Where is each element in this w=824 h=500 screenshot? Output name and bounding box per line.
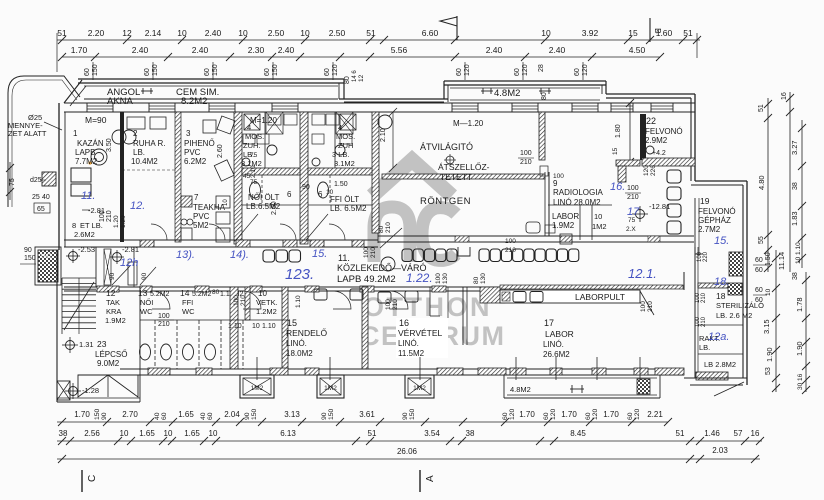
svg-text:6.13: 6.13 [280, 429, 296, 438]
svg-text:80: 80 [473, 276, 480, 284]
svg-text:60: 60 [755, 267, 763, 274]
svg-text:12: 12 [358, 74, 365, 82]
svg-text:3.61: 3.61 [359, 410, 375, 419]
svg-text:2.40: 2.40 [205, 28, 222, 38]
svg-text:6.60: 6.60 [422, 28, 439, 38]
svg-text:2.40: 2.40 [132, 45, 149, 55]
svg-text:210: 210 [158, 321, 170, 328]
svg-text:1.20: 1.20 [113, 215, 120, 228]
svg-text:220: 220 [703, 251, 709, 262]
svg-text:4.8M2: 4.8M2 [510, 385, 531, 394]
svg-text:1M2: 1M2 [40, 254, 52, 260]
svg-text:1: 1 [73, 129, 78, 138]
svg-text:40: 40 [200, 412, 207, 420]
svg-text:19: 19 [700, 196, 710, 206]
svg-text:2.6M2: 2.6M2 [74, 230, 95, 239]
svg-text:3.13: 3.13 [284, 410, 300, 419]
svg-text:1.78: 1.78 [795, 297, 804, 312]
svg-text:TETETT: TETETT [440, 172, 472, 182]
svg-text:3.15: 3.15 [762, 319, 771, 334]
svg-text:-2.53: -2.53 [78, 245, 95, 254]
svg-text:1.31: 1.31 [79, 340, 94, 349]
svg-text:60: 60 [755, 257, 763, 264]
svg-text:12h: 12h [120, 257, 138, 269]
svg-text:60: 60 [627, 412, 634, 420]
svg-text:1.70: 1.70 [603, 410, 619, 419]
svg-text:55: 55 [758, 236, 765, 244]
svg-text:40: 40 [154, 412, 161, 420]
svg-text:60: 60 [755, 287, 763, 294]
svg-text:15.: 15. [312, 248, 327, 260]
svg-text:WC: WC [182, 307, 195, 316]
svg-text:10: 10 [209, 429, 218, 438]
svg-text:123.: 123. [285, 266, 314, 283]
svg-text:2.50: 2.50 [268, 28, 285, 38]
svg-text:1M2: 1M2 [413, 385, 426, 392]
svg-text:2.60: 2.60 [217, 144, 224, 158]
svg-text:11.: 11. [338, 253, 350, 263]
svg-text:2.10: 2.10 [250, 165, 257, 178]
svg-text:LÉPCSŐ: LÉPCSŐ [95, 350, 127, 359]
svg-text:5.2M2: 5.2M2 [192, 291, 212, 298]
svg-text:13).: 13). [176, 249, 195, 261]
svg-text:MOS.: MOS. [245, 132, 264, 141]
svg-text:16: 16 [751, 429, 760, 438]
svg-text:80: 80 [344, 76, 351, 84]
svg-text:100: 100 [158, 313, 170, 320]
svg-text:12a.: 12a. [708, 331, 729, 343]
svg-text:51: 51 [366, 28, 376, 38]
svg-text:1.90: 1.90 [765, 347, 774, 362]
svg-text:LABOR: LABOR [552, 212, 579, 221]
svg-text:25: 25 [32, 194, 40, 201]
svg-text:100: 100 [363, 247, 370, 258]
svg-text:60: 60 [456, 68, 463, 76]
svg-text:26.6M2: 26.6M2 [543, 350, 570, 359]
svg-text:60: 60 [543, 412, 550, 420]
svg-text:13: 13 [138, 288, 148, 298]
svg-text:51: 51 [368, 429, 377, 438]
svg-text:14).: 14). [230, 249, 249, 261]
svg-text:10: 10 [594, 212, 602, 221]
svg-text:38: 38 [792, 182, 799, 190]
svg-text:12.1.: 12.1. [628, 266, 657, 281]
svg-text:90: 90 [244, 412, 251, 420]
svg-text:2.20: 2.20 [88, 28, 105, 38]
svg-text:1.2M2: 1.2M2 [256, 307, 277, 316]
svg-text:RÖNTGEN: RÖNTGEN [420, 196, 471, 207]
svg-text:6.2M2: 6.2M2 [184, 157, 207, 166]
svg-text:LB. 2.6 M2: LB. 2.6 M2 [716, 311, 752, 320]
svg-text:38: 38 [792, 272, 799, 280]
svg-text:ÁTSZELLŐZ-: ÁTSZELLŐZ- [438, 162, 490, 172]
svg-text:150: 150 [94, 408, 101, 420]
svg-text:9.0M2: 9.0M2 [97, 359, 120, 368]
svg-text:OTTHON: OTTHON [363, 292, 492, 322]
svg-text:ÁTVILÁGITÓ: ÁTVILÁGITÓ [420, 142, 473, 152]
svg-text:1.50: 1.50 [334, 181, 348, 188]
svg-text:12: 12 [122, 28, 132, 38]
svg-text:C: C [87, 475, 98, 482]
svg-text:1.70: 1.70 [74, 410, 90, 419]
svg-text:1.20: 1.20 [120, 215, 127, 228]
svg-text:90: 90 [402, 412, 409, 420]
svg-text:210: 210 [701, 316, 707, 327]
svg-text:210: 210 [240, 295, 247, 306]
svg-text:210: 210 [520, 159, 532, 166]
svg-text:120: 120 [634, 408, 641, 420]
svg-text:3.1M2: 3.1M2 [334, 159, 355, 168]
svg-text:10: 10 [541, 28, 551, 38]
svg-text:LB 2.8M2: LB 2.8M2 [704, 360, 736, 369]
svg-text:GÉPHÁZ: GÉPHÁZ [698, 216, 731, 225]
svg-text:120: 120 [592, 408, 599, 420]
svg-text:1M2: 1M2 [251, 385, 264, 392]
svg-text:100: 100 [435, 273, 442, 284]
svg-text:2.40: 2.40 [192, 45, 209, 55]
svg-text:60: 60 [144, 68, 151, 76]
svg-text:100: 100 [640, 301, 647, 312]
svg-text:1.9M2: 1.9M2 [105, 316, 126, 325]
svg-text:1.70: 1.70 [71, 45, 88, 55]
svg-text:7.7M2: 7.7M2 [75, 157, 98, 166]
svg-text:3.54: 3.54 [424, 429, 440, 438]
svg-text:90: 90 [302, 184, 310, 191]
svg-text:10: 10 [258, 289, 267, 298]
svg-text:226: 226 [650, 165, 657, 176]
svg-text:1.46: 1.46 [704, 429, 720, 438]
svg-text:d25: d25 [30, 177, 42, 184]
svg-text:10: 10 [177, 28, 187, 38]
svg-text:2.40: 2.40 [278, 45, 295, 55]
svg-text:150: 150 [251, 408, 258, 420]
svg-text:LAPB 49.2M2: LAPB 49.2M2 [337, 274, 396, 285]
svg-text:2.50: 2.50 [329, 28, 346, 38]
svg-text:210: 210 [370, 247, 377, 258]
svg-text:TAK: TAK [106, 298, 120, 307]
svg-text:1.70: 1.70 [561, 410, 577, 419]
svg-text:8.2M2: 8.2M2 [181, 96, 207, 107]
svg-text:9: 9 [553, 179, 558, 188]
svg-text:17: 17 [627, 206, 640, 218]
svg-text:4.80: 4.80 [757, 175, 766, 190]
svg-text:2.14: 2.14 [145, 28, 162, 38]
svg-text:120: 120 [509, 408, 516, 420]
svg-text:ET LB.: ET LB. [80, 221, 103, 230]
svg-text:1.9M2: 1.9M2 [552, 221, 575, 230]
svg-text:51: 51 [676, 429, 685, 438]
svg-text:2.X: 2.X [626, 226, 636, 233]
svg-text:15: 15 [612, 147, 619, 155]
svg-text:LABOR: LABOR [545, 329, 574, 339]
svg-text:1.83: 1.83 [790, 211, 799, 226]
svg-text:60: 60 [574, 68, 581, 76]
svg-text:FFI ÖLT: FFI ÖLT [330, 195, 359, 204]
svg-text:90: 90 [141, 272, 148, 280]
svg-text:16: 16 [797, 373, 804, 381]
svg-text:8: 8 [72, 221, 76, 230]
svg-text:LINÓ 28.0M2: LINÓ 28.0M2 [553, 198, 601, 207]
svg-text:1.70: 1.70 [519, 410, 535, 419]
svg-text:40: 40 [42, 194, 50, 201]
svg-text:8.45: 8.45 [570, 429, 586, 438]
svg-text:KRA: KRA [106, 307, 121, 316]
svg-text:30: 30 [797, 382, 804, 390]
svg-text:FELVONÓ: FELVONÓ [698, 207, 736, 216]
svg-text:FFI: FFI [182, 298, 193, 307]
svg-text:90: 90 [24, 247, 32, 254]
svg-text:TEAKHA: TEAKHA [193, 203, 226, 212]
svg-text:2.10: 2.10 [380, 128, 387, 142]
svg-text:100: 100 [233, 295, 240, 306]
svg-text:38: 38 [466, 429, 475, 438]
svg-text:10: 10 [252, 323, 260, 330]
svg-text:WC: WC [140, 307, 153, 316]
svg-text:1.22.: 1.22. [406, 271, 433, 285]
svg-text:16: 16 [399, 318, 409, 328]
svg-text:5.2M2: 5.2M2 [150, 291, 170, 298]
svg-text:210: 210 [505, 247, 516, 254]
svg-text:1.80: 1.80 [615, 124, 622, 138]
svg-text:-12.81: -12.81 [649, 202, 670, 211]
svg-text:10: 10 [238, 28, 248, 38]
svg-text:4: 4 [247, 123, 251, 132]
svg-text:7: 7 [194, 193, 199, 202]
svg-text:LINÓ.: LINÓ. [398, 339, 419, 348]
svg-text:210: 210 [701, 292, 707, 303]
svg-text:3: 3 [186, 129, 191, 138]
svg-text:LABORPULT: LABORPULT [575, 292, 625, 302]
svg-text:VETK.: VETK. [256, 298, 278, 307]
svg-text:1M2: 1M2 [324, 385, 337, 392]
svg-text:18: 18 [716, 291, 726, 301]
svg-text:210: 210 [385, 222, 392, 233]
svg-text:150: 150 [24, 255, 36, 262]
svg-text:100: 100 [520, 150, 532, 157]
svg-text:10.4M2: 10.4M2 [131, 157, 158, 166]
svg-text:1.65: 1.65 [139, 429, 155, 438]
svg-text:ZET ALATT: ZET ALATT [8, 129, 47, 138]
svg-text:3.92: 3.92 [582, 28, 599, 38]
svg-text:M—1.20: M—1.20 [453, 119, 484, 128]
svg-text:RADIOLOGIA: RADIOLOGIA [553, 188, 603, 197]
svg-text:130: 130 [480, 273, 487, 284]
svg-text:75: 75 [250, 152, 258, 159]
svg-text:10 1.10: 10 1.10 [795, 242, 802, 264]
svg-text:PVC: PVC [184, 148, 201, 157]
svg-text:53: 53 [765, 367, 772, 375]
svg-text:38: 38 [59, 429, 68, 438]
svg-text:90: 90 [101, 412, 108, 420]
svg-text:1.90: 1.90 [795, 341, 804, 356]
svg-text:ZUH.: ZUH. [243, 141, 261, 150]
svg-text:15: 15 [287, 318, 297, 328]
svg-text:1.50: 1.50 [765, 252, 772, 266]
svg-text:NŐI: NŐI [140, 298, 153, 307]
svg-text:10: 10 [164, 429, 173, 438]
svg-text:2.30: 2.30 [248, 45, 265, 55]
svg-text:5.56: 5.56 [391, 45, 408, 55]
svg-text:57: 57 [734, 429, 743, 438]
svg-text:2.03: 2.03 [712, 446, 728, 455]
svg-text:60: 60 [207, 412, 214, 420]
svg-text:11.5M2: 11.5M2 [398, 349, 425, 358]
svg-text:120: 120 [550, 408, 557, 420]
svg-text:2.7M2: 2.7M2 [698, 225, 721, 234]
svg-text:2.21: 2.21 [647, 410, 663, 419]
svg-text:2.40: 2.40 [549, 45, 566, 55]
svg-text:3.50: 3.50 [106, 138, 113, 152]
svg-text:LB.: LB. [699, 343, 710, 352]
svg-text:PVC: PVC [193, 212, 210, 221]
svg-text:60: 60 [514, 68, 521, 76]
svg-text:10: 10 [120, 429, 129, 438]
svg-text:51: 51 [758, 104, 765, 112]
svg-text:2.9M2: 2.9M2 [645, 136, 668, 145]
svg-text:PIHENŐ: PIHENŐ [184, 139, 215, 148]
svg-text:17: 17 [544, 318, 554, 328]
svg-text:3.27: 3.27 [790, 140, 799, 155]
svg-text:1M2: 1M2 [592, 222, 607, 231]
svg-text:18.0M2: 18.0M2 [286, 349, 313, 358]
svg-text:51: 51 [57, 28, 67, 38]
svg-text:12.: 12. [130, 200, 145, 212]
svg-text:15.: 15. [714, 235, 729, 247]
svg-text:100: 100 [385, 299, 392, 310]
svg-text:10: 10 [765, 288, 772, 296]
svg-text:B: B [653, 28, 663, 34]
svg-text:2.40: 2.40 [486, 45, 503, 55]
svg-text:11.14: 11.14 [777, 252, 786, 270]
svg-text:90: 90 [321, 412, 328, 420]
svg-text:80: 80 [541, 92, 548, 100]
svg-text:100: 100 [553, 173, 564, 180]
svg-text:6: 6 [287, 190, 292, 199]
svg-text:M=90: M=90 [85, 115, 107, 125]
svg-text:60: 60 [502, 412, 509, 420]
svg-text:RENDELŐ: RENDELŐ [286, 328, 327, 338]
svg-text:90: 90 [109, 272, 116, 280]
svg-text:5M2: 5M2 [193, 221, 209, 230]
svg-text:FELVONÓ: FELVONÓ [645, 127, 683, 136]
svg-text:1.65: 1.65 [184, 429, 200, 438]
svg-text:80: 80 [212, 289, 220, 296]
svg-text:51: 51 [683, 28, 693, 38]
svg-text:28: 28 [538, 64, 545, 72]
svg-text:KAZÁN: KAZÁN [77, 139, 104, 148]
svg-text:15: 15 [628, 28, 638, 38]
svg-text:120: 120 [643, 165, 650, 176]
svg-text:LINÓ.: LINÓ. [286, 339, 307, 348]
svg-text:150: 150 [409, 408, 416, 420]
svg-text:60: 60 [324, 68, 331, 76]
svg-text:11.: 11. [81, 190, 95, 202]
svg-text:16: 16 [781, 92, 788, 100]
svg-text:2.56: 2.56 [84, 429, 100, 438]
svg-text:4.8M2: 4.8M2 [494, 88, 520, 99]
svg-text:60: 60 [585, 412, 592, 420]
svg-text:1.65: 1.65 [178, 410, 194, 419]
svg-text:AKNA: AKNA [107, 96, 134, 107]
svg-text:75: 75 [628, 217, 636, 224]
svg-text:210: 210 [627, 194, 639, 201]
svg-text:210: 210 [106, 210, 113, 222]
svg-text:210: 210 [392, 299, 399, 310]
svg-text:LB. 6.5M2: LB. 6.5M2 [330, 204, 367, 213]
svg-text:16.: 16. [610, 181, 625, 193]
svg-text:LAPB: LAPB [75, 148, 95, 157]
svg-text:80: 80 [378, 225, 385, 233]
svg-text:12: 12 [106, 288, 116, 298]
svg-text:60: 60 [264, 68, 271, 76]
svg-text:65: 65 [37, 206, 45, 213]
svg-text:26.06: 26.06 [397, 447, 418, 456]
svg-text:10: 10 [300, 28, 310, 38]
svg-text:LINÓ.: LINÓ. [543, 340, 564, 349]
svg-text:150: 150 [328, 408, 335, 420]
svg-text:23: 23 [97, 339, 107, 349]
svg-text:2.70: 2.70 [122, 410, 138, 419]
svg-text:60: 60 [161, 412, 168, 420]
svg-text:1.10: 1.10 [262, 323, 276, 330]
svg-text:14: 14 [180, 288, 190, 298]
svg-text:60: 60 [755, 297, 763, 304]
svg-text:100: 100 [627, 185, 639, 192]
svg-text:18.: 18. [714, 276, 729, 288]
svg-text:210: 210 [647, 301, 654, 312]
svg-text:1.10: 1.10 [228, 323, 242, 330]
svg-text:4.50: 4.50 [629, 45, 646, 55]
svg-text:RUHA R.: RUHA R. [133, 139, 165, 148]
svg-text:10: 10 [223, 199, 229, 206]
svg-text:LB.: LB. [133, 148, 145, 157]
svg-text:130: 130 [442, 273, 449, 284]
svg-text:A: A [425, 475, 436, 482]
svg-text:1.10: 1.10 [295, 295, 302, 308]
svg-text:22: 22 [646, 116, 656, 126]
svg-text:2.04: 2.04 [224, 410, 240, 419]
svg-text:60: 60 [204, 68, 211, 76]
svg-text:2.60: 2.60 [271, 201, 278, 215]
svg-text:-2.81: -2.81 [122, 245, 139, 254]
svg-text:60: 60 [84, 68, 91, 76]
svg-text:VÉRVÉTEL: VÉRVÉTEL [398, 328, 443, 338]
